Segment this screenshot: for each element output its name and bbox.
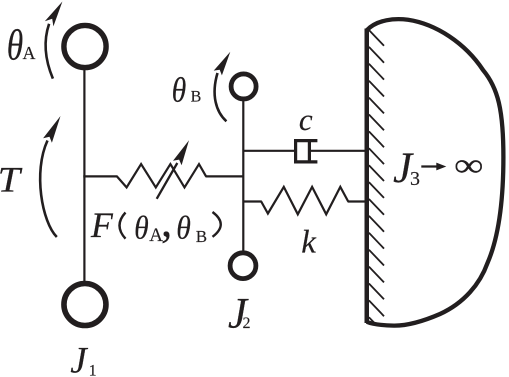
friction variable arrow — [157, 140, 189, 199]
wall hatching — [369, 30, 384, 323]
wire damper right — [309, 150, 366, 152]
inertia J2 bottom disc — [230, 253, 256, 279]
label J2 — [228, 290, 251, 337]
svg-text:2: 2 — [243, 315, 251, 332]
inertia J1 bottom disc — [64, 284, 106, 326]
damper cylinder — [296, 141, 318, 162]
arrow to infinity — [421, 163, 446, 171]
svg-text:1: 1 — [89, 362, 97, 377]
label J1 — [70, 341, 96, 377]
svg-text:A: A — [23, 43, 36, 63]
curved arrow theta_B — [214, 52, 231, 122]
wire damper left — [243, 150, 295, 152]
svg-text:J: J — [70, 341, 88, 377]
label theta_A — [7, 23, 36, 70]
svg-text:3: 3 — [410, 168, 420, 190]
wire spring k right — [348, 200, 366, 202]
damper piston — [308, 142, 311, 162]
curved arrow theta_A — [45, 2, 63, 79]
shaft J1 (wire) — [83, 70, 85, 282]
svg-text:θ: θ — [176, 209, 191, 246]
label J3 — [393, 145, 420, 192]
svg-text:θ: θ — [172, 71, 187, 110]
svg-text:θ: θ — [7, 23, 24, 70]
svg-text:∞: ∞ — [454, 148, 484, 184]
svg-text:B: B — [196, 227, 207, 246]
svg-text:θ: θ — [134, 209, 149, 246]
inertia J1 top disc — [64, 25, 106, 67]
rigid body J3 blob — [367, 19, 504, 325]
shaft J2 (wire) — [242, 101, 244, 251]
wire spring k left — [243, 200, 261, 202]
friction spring F — [117, 164, 206, 187]
svg-text:k: k — [301, 224, 317, 260]
wire friction left — [83, 175, 117, 177]
wall (fixed support) — [365, 29, 370, 324]
label F(thetaA, thetaB) — [90, 195, 221, 246]
svg-text:T: T — [0, 160, 23, 200]
inertia J2 top disc — [231, 74, 256, 99]
svg-text:c: c — [299, 102, 313, 137]
wire friction right — [206, 175, 244, 177]
svg-text:B: B — [191, 88, 202, 105]
svg-text:,: , — [161, 195, 173, 246]
spring k — [261, 187, 348, 214]
svg-text:F: F — [90, 205, 114, 245]
label theta_B — [172, 71, 202, 110]
curved arrow T — [40, 116, 60, 237]
